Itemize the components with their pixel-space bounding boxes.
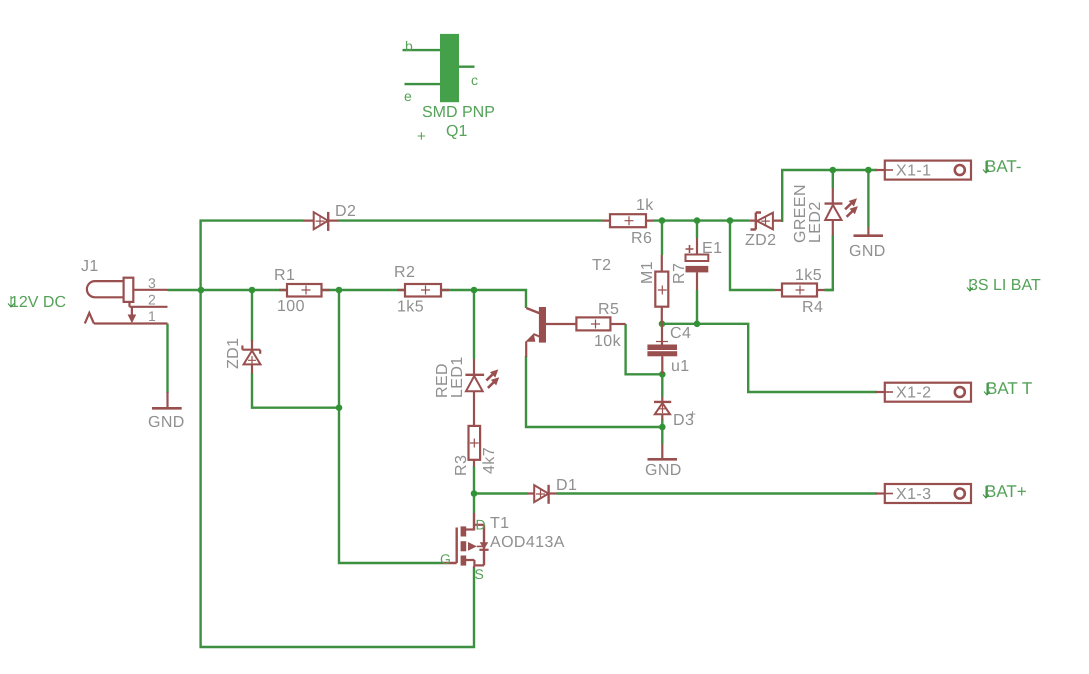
- zener diode ZD2: [745, 213, 782, 250]
- wire D1 right to X1-3: [557, 492, 878, 494]
- junction GND right / X1-1: [865, 167, 872, 174]
- junction R3 bottom / D1 / T1 drain: [471, 490, 478, 497]
- resistor R2: [394, 264, 449, 316]
- wire ZD1 bottom corner to x339: [252, 373, 339, 408]
- junction ZD1 top: [249, 287, 256, 294]
- wire T2 collector: [474, 290, 526, 308]
- wire main left loop: D2 left, down left side, bottom, up to T1 source: [201, 221, 474, 647]
- transistor Q1 SMD PNP (green symbol, top): [403, 34, 495, 145]
- diode D2: [303, 203, 356, 231]
- svg-text:100: 100: [277, 298, 305, 315]
- junction J1 pin3 / left vertical: [198, 287, 205, 294]
- svg-text:R2: R2: [394, 264, 415, 281]
- wire ZD1 column top: [251, 290, 253, 341]
- svg-text:R7: R7: [671, 263, 688, 284]
- svg-text:2: 2: [148, 292, 156, 308]
- ground GND middle (D3): [645, 444, 682, 479]
- junction E1 top: [694, 217, 701, 224]
- capacitor E1 electrolytic: [686, 238, 723, 290]
- svg-text:X1-2: X1-2: [896, 385, 931, 402]
- svg-text:BAT-: BAT-: [985, 157, 1022, 176]
- junction R1-R2 / x339: [336, 287, 343, 294]
- svg-text:BAT T: BAT T: [986, 379, 1032, 398]
- wire C4 bottom to D3: [661, 374, 663, 397]
- svg-text:D2: D2: [335, 203, 356, 220]
- junction ZD1 bottom / gate column: [336, 404, 343, 411]
- svg-text:c: c: [471, 72, 478, 88]
- wire E1 bottom to row: [696, 290, 698, 324]
- connector J1 barrel jack: [85, 278, 168, 324]
- svg-text:3S LI BAT: 3S LI BAT: [969, 277, 1041, 294]
- wire R7 top stub: [661, 221, 663, 255]
- svg-text:BAT+: BAT+: [985, 482, 1027, 501]
- svg-text:1k5: 1k5: [795, 267, 822, 284]
- wire T1 drain top: [473, 494, 475, 514]
- connector X1-1: [876, 161, 971, 180]
- svg-text:R6: R6: [631, 230, 652, 247]
- wire J1 pin1 down to GND left: [166, 324, 168, 394]
- resistor R1: [274, 267, 330, 315]
- wire ZD2 right up to BAT- row into X1-1: [782, 170, 877, 222]
- svg-text:10k: 10k: [594, 333, 622, 350]
- svg-text:S: S: [475, 566, 484, 582]
- resistor R4: [775, 267, 825, 316]
- wire R6 right to ZD2 left: [654, 219, 749, 221]
- resistor R3: [453, 426, 498, 476]
- svg-text:1k: 1k: [636, 197, 654, 214]
- svg-text:X1-1: X1-1: [896, 163, 931, 180]
- svg-text:3: 3: [148, 275, 156, 291]
- resistor R5: [576, 301, 625, 350]
- wire x339 column down to T1 gate row: [339, 290, 441, 563]
- svg-text:R1: R1: [274, 267, 295, 284]
- wire D1 row left stub: [474, 492, 528, 494]
- wire E1 top stub: [696, 221, 698, 238]
- mosfet T1 AOD413A: [440, 513, 565, 582]
- svg-text:Q1: Q1: [446, 123, 467, 140]
- svg-text:+: +: [417, 128, 426, 145]
- diode D1: [528, 477, 577, 504]
- svg-text:M1: M1: [639, 261, 656, 284]
- junction R6 right / R7 top: [659, 217, 666, 224]
- svg-text:J1: J1: [81, 258, 99, 275]
- svg-text:ZD2: ZD2: [745, 232, 776, 249]
- ground GND left (J1): [148, 392, 185, 431]
- junction R7 bottom: [659, 321, 666, 328]
- svg-text:AOD413A: AOD413A: [490, 534, 565, 551]
- svg-text:LED1: LED1: [449, 356, 466, 398]
- led LED1 RED: [434, 356, 499, 426]
- junction ZD2 branch: [727, 217, 734, 224]
- svg-text:D: D: [476, 517, 486, 533]
- junction R2 right / LED1 / T2: [471, 287, 478, 294]
- J1 switch arrow: [128, 315, 137, 324]
- svg-text:R5: R5: [598, 301, 619, 318]
- transistor T2 PNP: [525, 257, 611, 357]
- wire main row J1 pin3 to T2 collector corner: [168, 289, 475, 291]
- svg-text:R4: R4: [802, 299, 823, 316]
- wire LED1 top: [473, 290, 475, 359]
- svg-text:GND: GND: [148, 414, 185, 431]
- svg-text:T2: T2: [592, 257, 611, 274]
- svg-text:b: b: [405, 38, 413, 54]
- svg-text:GND: GND: [849, 243, 886, 260]
- wire ZD2 R4 column: [730, 221, 775, 290]
- svg-text:C4: C4: [670, 325, 691, 342]
- resistor R6: [603, 197, 655, 247]
- svg-text:GND: GND: [645, 462, 682, 479]
- svg-text:G: G: [440, 551, 451, 567]
- svg-text:T1: T1: [490, 515, 509, 532]
- diode D3: [654, 397, 696, 429]
- wire row 323.8 to X1-2: [662, 324, 877, 392]
- zener diode ZD1: [225, 338, 261, 374]
- svg-text:4k7: 4k7: [481, 447, 498, 474]
- svg-text:1: 1: [148, 308, 156, 324]
- ground GND right (X1-1): [849, 227, 886, 260]
- svg-text:E1: E1: [702, 240, 722, 257]
- svg-text:u1: u1: [671, 358, 690, 375]
- svg-text:LED2: LED2: [807, 201, 824, 243]
- resistor R7 value M1: [639, 255, 688, 324]
- wire D3 bottom to GND mid: [661, 419, 663, 444]
- connector X1-3: [876, 484, 971, 503]
- capacitor C4 value u1: [647, 324, 691, 375]
- junction C4 bottom / R5: [659, 371, 666, 378]
- svg-text:X1-3: X1-3: [896, 486, 931, 503]
- led LED2 GREEN: [792, 184, 858, 243]
- svg-text:e: e: [404, 88, 412, 104]
- wire R5 right down to C4 row: [626, 324, 663, 374]
- wire R3 bottom to D1 junction: [473, 466, 475, 494]
- connector X1-2: [876, 383, 971, 402]
- svg-text:SMD PNP: SMD PNP: [422, 104, 495, 121]
- wire T2 emitter down and across to D3 junction: [526, 356, 662, 427]
- wire R4 right to LED2 bottom column: [825, 289, 833, 291]
- wire D2 right to R6 left: [339, 219, 603, 221]
- junction LED2 top: [830, 167, 837, 174]
- svg-text:ZD1: ZD1: [225, 338, 242, 369]
- svg-text:D1: D1: [556, 477, 577, 494]
- svg-text:1k5: 1k5: [397, 299, 424, 316]
- svg-text:12V DC: 12V DC: [10, 294, 66, 311]
- junction E1 bottom: [694, 321, 701, 328]
- wire GND right stem: [867, 170, 869, 227]
- junction D3 bottom / T2 emitter: [659, 424, 666, 431]
- wire LED2 column: [832, 170, 834, 188]
- svg-text:+: +: [689, 407, 696, 421]
- svg-text:R3: R3: [453, 455, 470, 476]
